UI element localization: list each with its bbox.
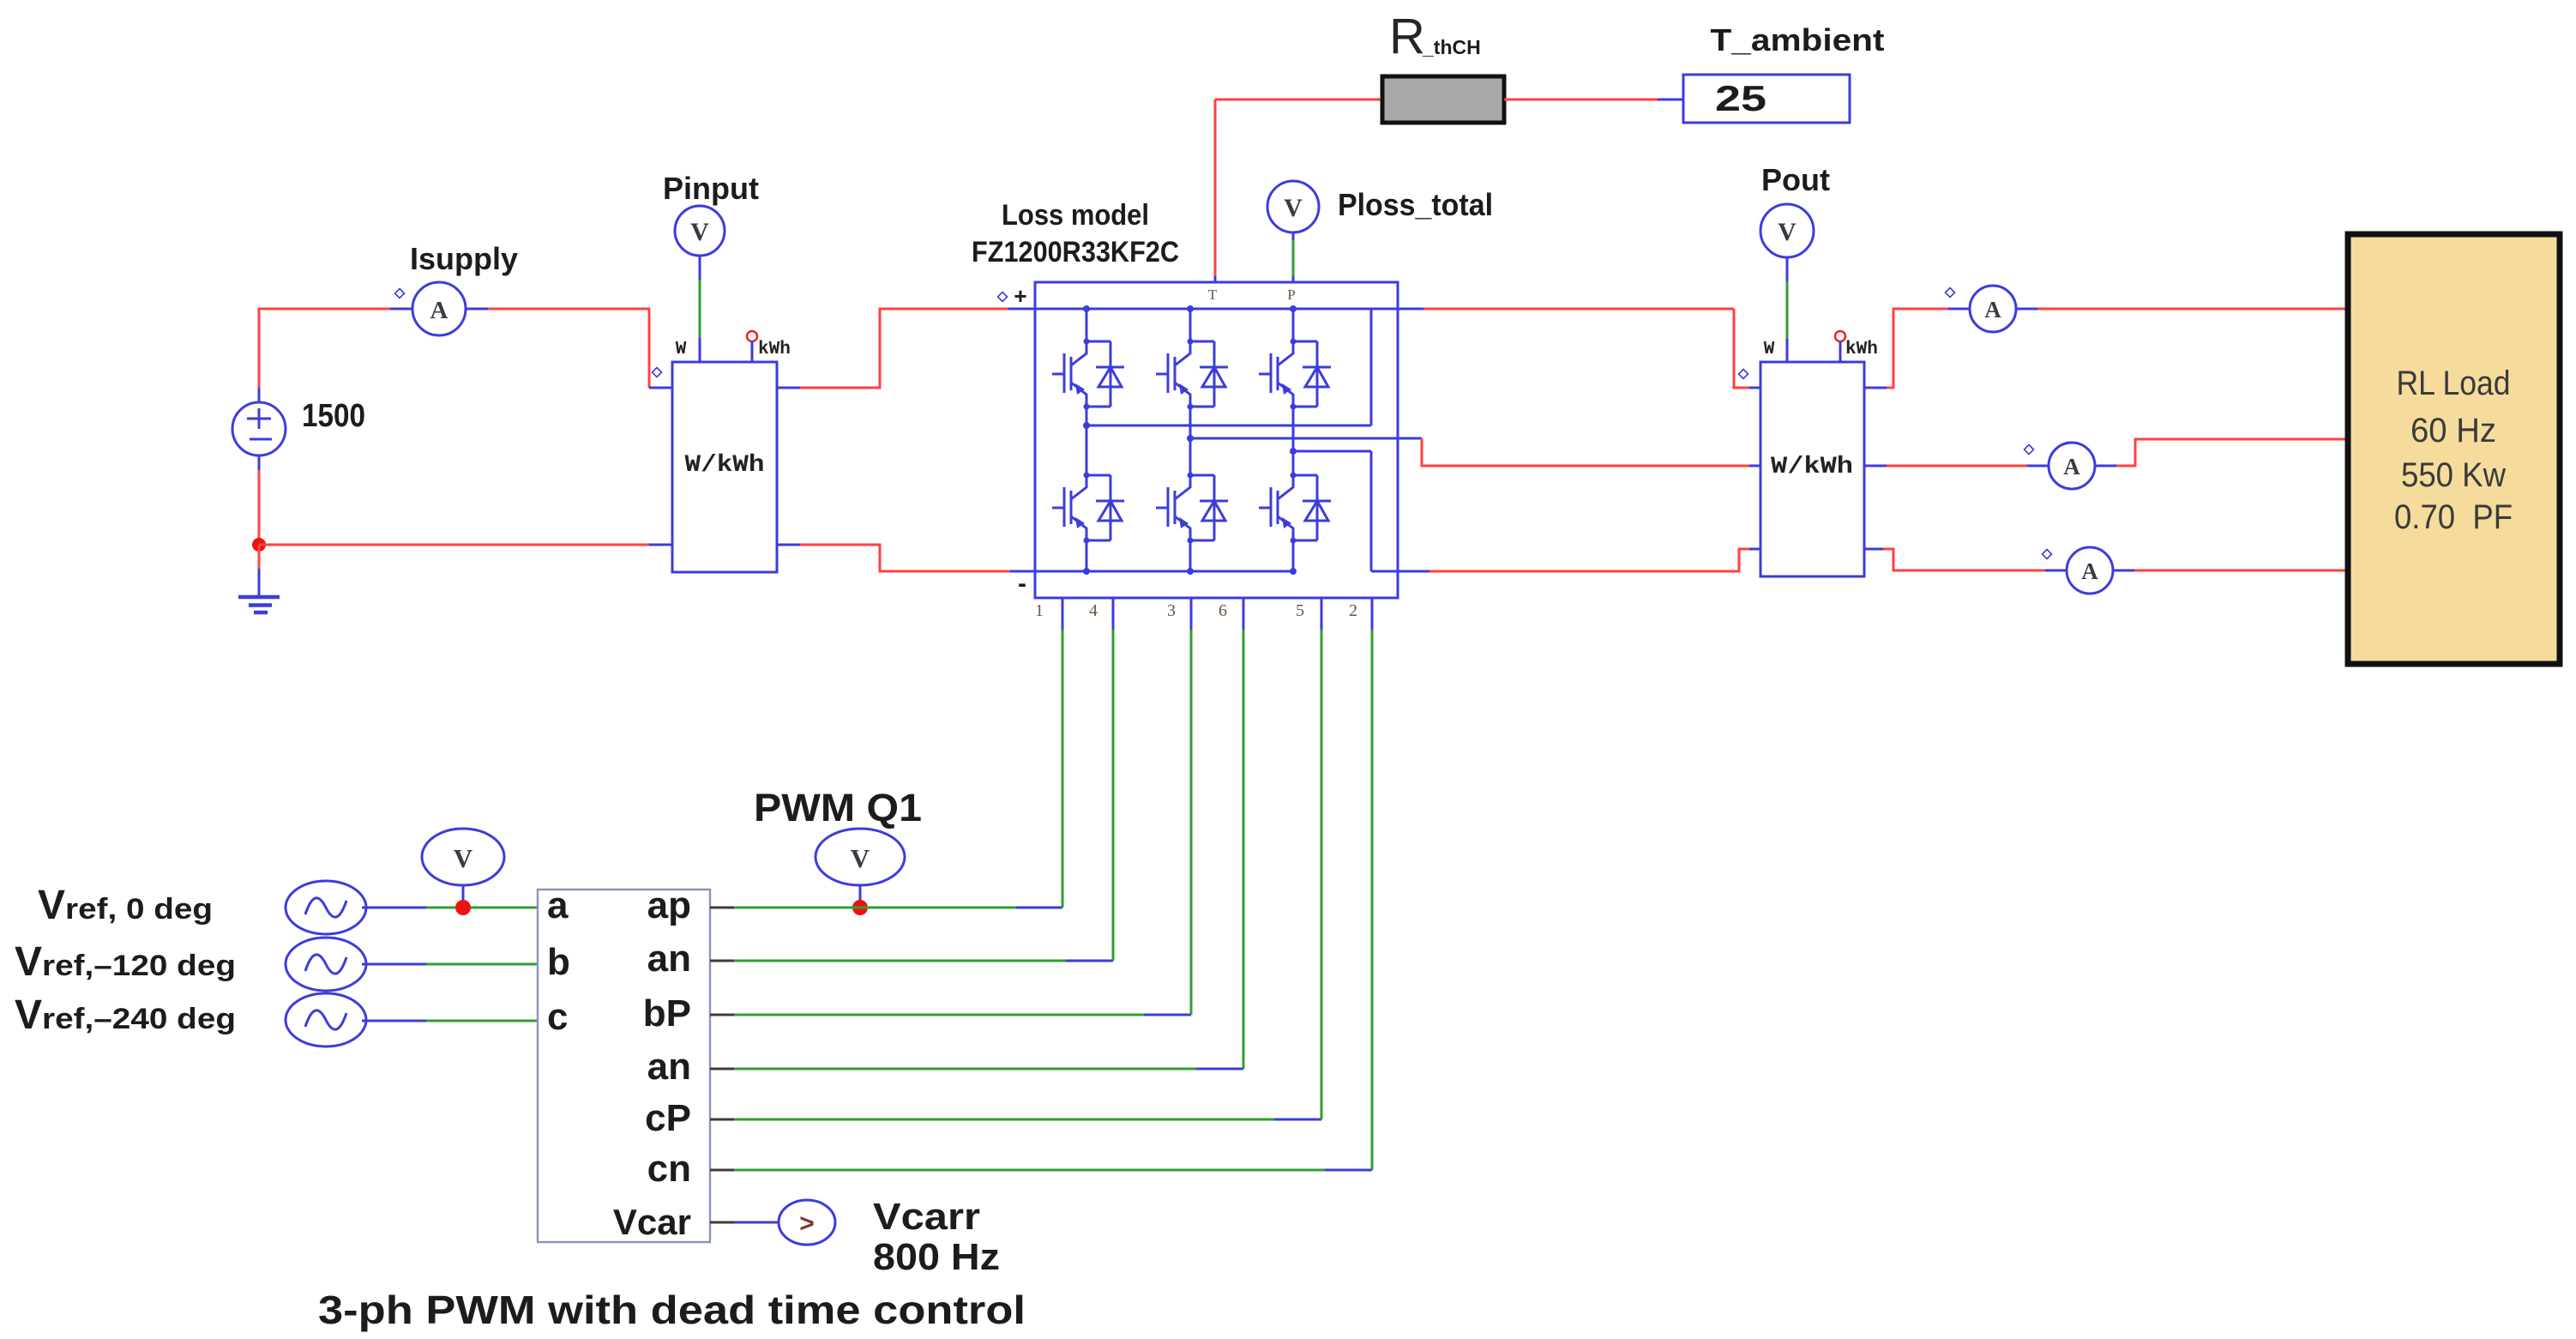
wire gate an to pin4 <box>710 960 734 962</box>
wire voltmeter stub <box>699 256 701 280</box>
wire meter1 out-top to inverter + <box>777 387 800 389</box>
node leg bottoms <box>1083 568 1090 575</box>
node junction ref a <box>455 900 471 915</box>
wire dc- bus <box>1035 570 1296 573</box>
svg-text:RL Load: RL Load <box>2397 365 2511 402</box>
wire dc- down <box>258 455 261 470</box>
wire A3 to load <box>2113 570 2134 572</box>
port marker diamond <box>998 293 1008 302</box>
wire stub ammeter left <box>390 308 412 311</box>
svg-text:T: T <box>1208 286 1218 303</box>
label R_thCH <box>1389 9 1481 64</box>
power meter W/kWh output <box>1760 362 1864 576</box>
svg-text:A: A <box>1984 297 2001 323</box>
wire leg C segments <box>1292 309 1295 571</box>
svg-text:5: 5 <box>1296 601 1304 620</box>
wire junction to meter1 bottom-left port <box>259 544 649 546</box>
svg-text:cn: cn <box>647 1148 691 1190</box>
wire phase C out bottom <box>1371 570 1429 573</box>
transistor Q4 (bottom leg A) <box>1052 473 1124 544</box>
svg-text:Vcarr: Vcarr <box>873 1196 980 1238</box>
wire b input <box>362 963 426 966</box>
wire signal pinput <box>699 280 701 338</box>
RL load block <box>2348 234 2560 664</box>
sine source Vref c <box>286 993 366 1046</box>
svg-text:a: a <box>547 884 569 926</box>
constant block T_ambient 25 <box>1683 75 1850 123</box>
port marker diamond <box>2043 550 2052 559</box>
svg-text:bP: bP <box>643 992 691 1034</box>
svg-text:Loss model: Loss model <box>1002 199 1149 232</box>
wire junction down to ground <box>258 545 261 569</box>
svg-text:3-ph PWM with dead time contro: 3-ph PWM with dead time control <box>318 1288 1026 1332</box>
svg-text:-: - <box>1018 570 1026 598</box>
svg-text:W: W <box>1764 340 1775 359</box>
svg-text:60 Hz: 60 Hz <box>2410 412 2496 449</box>
svg-text:P: P <box>1287 286 1295 303</box>
transistor Q5 (top leg C) <box>1259 339 1331 410</box>
wire meter2 out3 down <box>1864 548 1883 551</box>
wire voltmeter stub <box>462 885 465 908</box>
pwm block <box>538 890 710 1242</box>
wire meter1 out-bottom to inverter - <box>777 544 800 546</box>
transistor Q6 (bottom leg B) <box>1156 473 1228 544</box>
svg-text:Pout: Pout <box>1761 162 1830 197</box>
svg-text:6: 6 <box>1219 601 1227 620</box>
node junction ap <box>852 900 868 915</box>
svg-text:cP: cP <box>645 1097 691 1139</box>
wire stub meter1 in-top <box>649 387 672 389</box>
svg-text:A: A <box>2081 558 2098 584</box>
svg-text:Vcar: Vcar <box>613 1202 691 1242</box>
transistor Q3 (top leg B) <box>1156 339 1228 410</box>
sine source Vref b <box>286 938 366 991</box>
ammeter Isupply <box>412 282 466 335</box>
port marker diamond <box>2025 445 2034 455</box>
wire meter2 out1 up to phase a row <box>1864 387 1887 389</box>
wire gate an2 to pin6 <box>710 1068 734 1071</box>
svg-text:Isupply: Isupply <box>410 241 518 276</box>
wire dc+ up <box>258 388 261 402</box>
svg-text:V: V <box>851 843 870 873</box>
wire right riser A <box>1370 309 1373 425</box>
wire stub into W port <box>699 338 701 362</box>
wire riser into meter2 top-left <box>1734 309 1749 388</box>
svg-text:b: b <box>547 941 570 983</box>
wire voltmeter stub <box>859 885 862 908</box>
wire phase B out to right <box>1422 438 1749 466</box>
svg-text:W: W <box>676 340 687 359</box>
wire thermal T pin <box>1214 100 1217 276</box>
svg-text:an: an <box>647 938 691 980</box>
wire phase C midpoint <box>1293 450 1371 453</box>
wire leg B segments <box>1189 309 1192 571</box>
power meter W/kWh input <box>672 362 777 572</box>
ammeter A phase c <box>2067 547 2113 594</box>
svg-text:V: V <box>1284 194 1303 222</box>
ammeter A phase a <box>1970 286 2016 332</box>
wire Pout stub <box>1786 256 1789 281</box>
svg-text:3: 3 <box>1167 601 1176 620</box>
wire dc+ bus <box>1035 308 1398 311</box>
dc source V1 1500V <box>232 402 286 455</box>
wire gate cn to pin2 <box>710 1169 734 1172</box>
voltmeter Ploss_total <box>1267 181 1319 232</box>
node leg tops <box>1083 305 1090 312</box>
svg-text:800 Hz: 800 Hz <box>873 1236 1000 1278</box>
port marker diamond <box>1946 288 1955 298</box>
wire stub ammeter right <box>466 308 488 311</box>
svg-text:4: 4 <box>1089 601 1098 620</box>
svg-text:W/kWh: W/kWh <box>1771 454 1853 480</box>
wire gate bP to pin3 <box>710 1014 734 1016</box>
transistor Q2 (bottom leg C) <box>1259 473 1331 544</box>
svg-text:>: > <box>799 1209 815 1238</box>
scope probe Vcarr <box>779 1200 835 1245</box>
svg-text:T_ambient: T_ambient <box>1711 22 1885 57</box>
svg-text:an: an <box>647 1046 691 1088</box>
wire a input <box>362 907 426 909</box>
voltmeter PWM Q1 <box>816 829 905 885</box>
svg-text:V: V <box>1778 218 1797 246</box>
svg-text:kWh: kWh <box>758 340 791 359</box>
port marker diamond <box>653 368 662 377</box>
ammeter A phase b <box>2049 443 2095 489</box>
wire phase A out to right <box>1398 308 1423 311</box>
wire T to resistor <box>1215 99 1382 101</box>
port marker diamond <box>395 289 405 299</box>
svg-text:0.70 PF: 0.70 PF <box>2394 498 2513 536</box>
wire Vcar out <box>710 1221 734 1224</box>
wire right riser C <box>1370 451 1373 571</box>
wire resistor to T_ambient <box>1504 99 1658 101</box>
gate pin stubs <box>1062 598 1372 630</box>
sine source Vref a <box>286 881 366 934</box>
wire dc+ to ammeter <box>259 309 390 388</box>
svg-text:Pinput: Pinput <box>663 171 759 206</box>
wire A2 to load <box>2095 465 2116 467</box>
svg-text:1500: 1500 <box>302 398 365 434</box>
voltmeter Pinput <box>675 206 725 256</box>
resistor R_thCH <box>1382 76 1504 123</box>
voltmeter Pout <box>1760 204 1814 257</box>
node junction dc- <box>252 538 266 552</box>
svg-text:+: + <box>1014 283 1026 309</box>
wire leg A segments <box>1086 309 1088 571</box>
svg-text:c: c <box>547 996 568 1038</box>
svg-text:kWh: kWh <box>1845 340 1878 359</box>
svg-text:1: 1 <box>1035 601 1044 620</box>
svg-text:ap: ap <box>647 884 691 926</box>
wire A1 to load <box>2016 308 2037 311</box>
ground <box>238 569 280 612</box>
wire ammeter to meter1 top-left port <box>488 309 649 388</box>
svg-text:R: R <box>1389 9 1425 64</box>
svg-text:PWM Q1: PWM Q1 <box>754 786 922 829</box>
wire signal pout <box>1786 281 1789 339</box>
svg-text:V: V <box>454 843 473 873</box>
inverter block U1 <box>1035 282 1398 598</box>
wire gate ap to pin1 <box>710 907 734 909</box>
wire Ploss stub <box>1292 232 1295 240</box>
svg-text:W/kWh: W/kWh <box>685 452 765 479</box>
wire stub meter1 in-bottom <box>649 544 672 546</box>
svg-text:2: 2 <box>1349 601 1357 620</box>
svg-text:_thCH: _thCH <box>1422 36 1481 58</box>
wire c input <box>362 1020 426 1022</box>
wire gate cP to pin5 <box>710 1119 734 1121</box>
svg-text:550 Kw: 550 Kw <box>2401 456 2506 494</box>
svg-text:FZ1200R33KF2C: FZ1200R33KF2C <box>972 236 1179 268</box>
svg-text:A: A <box>430 297 448 324</box>
svg-text:25: 25 <box>1715 78 1766 118</box>
voltmeter on ref a <box>422 829 504 885</box>
unconnected kWh port flag <box>1835 331 1845 362</box>
wire phase B midpoint out <box>1190 437 1422 440</box>
svg-text:V: V <box>690 218 709 246</box>
wire meter2 out2 <box>1864 465 1887 467</box>
svg-text:Ploss_total: Ploss_total <box>1338 187 1493 222</box>
port marker diamond <box>1739 370 1748 379</box>
wire signal P pin <box>1292 240 1295 276</box>
transistor Q1 (top leg A) <box>1052 339 1124 410</box>
svg-text:A: A <box>2063 454 2080 480</box>
wire dc- to junction <box>258 470 261 545</box>
wire phase A midpoint <box>1086 425 1371 427</box>
unconnected kWh port flag <box>747 331 757 362</box>
